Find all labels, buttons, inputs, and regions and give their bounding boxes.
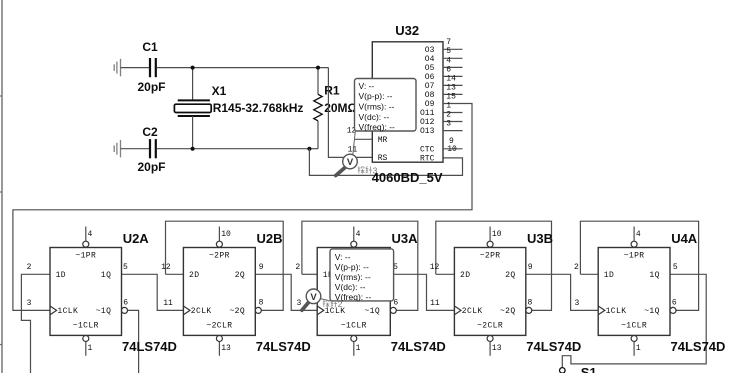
svg-text:V(dc): --: V(dc): -- bbox=[359, 112, 390, 122]
svg-text:RS: RS bbox=[378, 154, 388, 163]
wire U32 O9 to U2A 1CLK bbox=[13, 104, 472, 311]
svg-text:1Q: 1Q bbox=[649, 271, 659, 280]
value 74LS74D (U3A) bbox=[391, 339, 446, 354]
svg-text:U3B: U3B bbox=[527, 231, 553, 246]
value C1 20pF bbox=[138, 80, 166, 94]
U3A pin numbers bbox=[295, 230, 398, 353]
svg-text:~2Q: ~2Q bbox=[229, 307, 245, 316]
svg-text:74LS74D: 74LS74D bbox=[391, 339, 446, 354]
U32 pin 5 O4 bbox=[425, 47, 463, 64]
wire U2B 2Q to U3A 1CLK bbox=[255, 274, 317, 310]
svg-text:~2PR: ~2PR bbox=[480, 252, 501, 261]
svg-text:5: 5 bbox=[446, 47, 451, 56]
svg-text:11: 11 bbox=[430, 299, 440, 308]
svg-text:10: 10 bbox=[221, 230, 231, 239]
svg-text:~1Q: ~1Q bbox=[364, 307, 380, 316]
svg-text:6: 6 bbox=[123, 299, 128, 308]
svg-text:74LS74D: 74LS74D bbox=[671, 339, 726, 354]
svg-text:V(p-p): --: V(p-p): -- bbox=[335, 262, 369, 272]
svg-text:U32: U32 bbox=[395, 23, 419, 38]
svg-text:3: 3 bbox=[27, 299, 32, 308]
svg-text:~1CLR: ~1CLR bbox=[621, 322, 647, 331]
wire U3A ~Q to D feedback bbox=[302, 221, 418, 310]
svg-text:~1Q: ~1Q bbox=[96, 307, 112, 316]
wire C2 to crystal bottom node bbox=[157, 148, 310, 150]
svg-text:20MΩ: 20MΩ bbox=[324, 101, 357, 115]
svg-text:2: 2 bbox=[27, 263, 32, 272]
svg-text:V(p-p): --: V(p-p): -- bbox=[359, 91, 393, 101]
svg-text:2: 2 bbox=[446, 110, 451, 119]
svg-text:1D: 1D bbox=[604, 271, 614, 280]
wire U3B ~Q to D feedback bbox=[436, 221, 552, 310]
IC U32 4060BD_5V body bbox=[372, 42, 443, 162]
U3B pin numbers bbox=[430, 230, 533, 353]
value X1 R145-32.768kHz bbox=[213, 101, 304, 115]
resistor R1 bbox=[309, 68, 322, 149]
flip-flop U4A 74LS74D bbox=[598, 227, 676, 356]
U32 pin 2 O12 bbox=[420, 110, 463, 127]
wire ground to C1 bbox=[121, 67, 150, 69]
svg-text:1Q: 1Q bbox=[101, 271, 111, 280]
U32 pin 7 O3 bbox=[425, 38, 463, 55]
label U2B bbox=[257, 231, 283, 246]
node R1 bottom junction bbox=[307, 147, 311, 151]
svg-text:U2A: U2A bbox=[123, 231, 150, 246]
svg-text:12: 12 bbox=[161, 263, 171, 272]
svg-text:V: V bbox=[310, 292, 317, 303]
svg-text:2: 2 bbox=[574, 263, 579, 272]
U32 pin 13 O8 bbox=[425, 83, 463, 100]
U32 pin 11 RS bbox=[348, 146, 388, 164]
svg-text:9: 9 bbox=[528, 263, 533, 272]
probe label 探针2 bbox=[323, 299, 343, 309]
svg-text:13: 13 bbox=[446, 83, 456, 92]
label R1 bbox=[324, 83, 340, 97]
svg-text:11: 11 bbox=[348, 146, 358, 155]
U32 pin 12 MR bbox=[347, 126, 388, 145]
svg-text:2D: 2D bbox=[189, 271, 199, 280]
svg-text:2CLK: 2CLK bbox=[462, 307, 483, 316]
svg-text:~1CLR: ~1CLR bbox=[73, 322, 99, 331]
U32 pin 1 O11 bbox=[420, 101, 463, 118]
wire U3B 2Q to U4A 1CLK bbox=[526, 274, 598, 310]
svg-text:3: 3 bbox=[574, 299, 579, 308]
probe V (探针3) at U32 RS bbox=[336, 131, 358, 175]
svg-text:6: 6 bbox=[393, 299, 398, 308]
svg-text:U3A: U3A bbox=[392, 231, 419, 246]
svg-text:1: 1 bbox=[356, 344, 361, 353]
svg-text:C2: C2 bbox=[142, 125, 158, 139]
svg-text:3: 3 bbox=[296, 299, 301, 308]
svg-text:O4: O4 bbox=[425, 55, 435, 64]
svg-text:7: 7 bbox=[446, 38, 451, 47]
svg-text:C1: C1 bbox=[142, 40, 158, 54]
svg-text:6: 6 bbox=[672, 299, 677, 308]
svg-text:2CLK: 2CLK bbox=[191, 307, 212, 316]
label U4A bbox=[671, 231, 698, 246]
wire U2A ~1Q feedback (down) bbox=[127, 310, 139, 373]
svg-text:V: --: V: -- bbox=[359, 81, 375, 91]
wire C1 to R1 top / node XT1 bbox=[157, 67, 329, 69]
wire bottom node to U32 RTC pin 10 bbox=[309, 149, 462, 176]
node crystal bottom junction bbox=[191, 147, 195, 151]
value 4060BD_5V bbox=[372, 170, 443, 185]
svg-text:4060BD_5V: 4060BD_5V bbox=[372, 170, 443, 185]
svg-text:10: 10 bbox=[447, 145, 457, 154]
svg-text:RTC: RTC bbox=[420, 154, 435, 163]
wire U4A 1Q to switch S1 bbox=[562, 274, 706, 367]
svg-text:2Q: 2Q bbox=[235, 271, 245, 280]
ground (C1 left) bbox=[114, 59, 120, 77]
flip-flop U2B 74LS74D bbox=[183, 227, 261, 356]
svg-text:1CLK: 1CLK bbox=[57, 307, 78, 316]
svg-text:R1: R1 bbox=[324, 83, 340, 97]
svg-text:V(freq): --: V(freq): -- bbox=[359, 122, 396, 132]
svg-text:4: 4 bbox=[88, 230, 93, 239]
svg-text:8: 8 bbox=[259, 299, 264, 308]
svg-text:10: 10 bbox=[492, 230, 502, 239]
svg-text:V(rms): --: V(rms): -- bbox=[335, 272, 371, 282]
U2B pin numbers bbox=[161, 230, 264, 353]
svg-text:~2Q: ~2Q bbox=[500, 307, 516, 316]
wire U2A 1Q to U2B 2CLK bbox=[122, 274, 184, 310]
wire node to U32 RS pin 11 bbox=[328, 68, 372, 158]
value 74LS74D (U3B) bbox=[526, 339, 581, 354]
label S1 bbox=[581, 365, 597, 373]
svg-text:4: 4 bbox=[636, 230, 641, 239]
svg-text:~1CLR: ~1CLR bbox=[341, 322, 367, 331]
U32 pin 6 O6 bbox=[425, 65, 463, 82]
svg-text:8: 8 bbox=[527, 299, 532, 308]
svg-text:V: V bbox=[347, 157, 354, 168]
label U32 bbox=[395, 23, 419, 38]
flip-flop U3A 74LS74D bbox=[317, 227, 396, 356]
probe V (探针2) at U3A 1CLK bbox=[302, 289, 331, 310]
svg-text:9: 9 bbox=[259, 263, 264, 272]
svg-text:74LS74D: 74LS74D bbox=[526, 339, 581, 354]
value 74LS74D (U2B) bbox=[256, 339, 311, 354]
label U2A bbox=[123, 231, 150, 246]
value R1 20MOhm bbox=[324, 101, 357, 115]
svg-text:74LS74D: 74LS74D bbox=[256, 339, 311, 354]
U32 pin 9 CTC bbox=[420, 137, 463, 154]
wire U3A 1Q to U3B 2CLK bbox=[390, 274, 454, 310]
svg-text:74LS74D: 74LS74D bbox=[122, 339, 177, 354]
svg-text:O5: O5 bbox=[425, 64, 435, 73]
label U3B bbox=[527, 231, 553, 246]
svg-text:X1: X1 bbox=[212, 84, 227, 98]
label X1 bbox=[212, 84, 227, 98]
wire U2A 1D feedback (left) bbox=[21, 274, 50, 373]
svg-text:V(dc): --: V(dc): -- bbox=[335, 282, 366, 292]
svg-text:~1PR: ~1PR bbox=[75, 252, 96, 261]
svg-text:~2PR: ~2PR bbox=[209, 252, 230, 261]
svg-text:1: 1 bbox=[88, 344, 93, 353]
svg-text:12: 12 bbox=[430, 263, 440, 272]
wire U2B ~Q to D feedback bbox=[166, 221, 284, 310]
svg-text:~1PR: ~1PR bbox=[624, 252, 645, 261]
U32 pin 15 O9 bbox=[425, 92, 463, 109]
wire U4A ~Q to D feedback bbox=[580, 221, 698, 310]
svg-text:1CLK: 1CLK bbox=[606, 307, 627, 316]
U32 pin 14 O7 bbox=[425, 74, 463, 91]
svg-text:1D: 1D bbox=[56, 271, 66, 280]
U4A pin numbers bbox=[574, 230, 678, 353]
svg-text:O11: O11 bbox=[420, 109, 435, 118]
svg-text:CTC: CTC bbox=[420, 145, 435, 154]
svg-text:O8: O8 bbox=[425, 91, 435, 100]
label C2 bbox=[142, 125, 158, 139]
svg-text:V: --: V: -- bbox=[335, 252, 351, 262]
svg-text:13: 13 bbox=[492, 344, 502, 353]
svg-text:2Q: 2Q bbox=[505, 271, 515, 280]
svg-text:MR: MR bbox=[378, 136, 388, 145]
svg-text:U4A: U4A bbox=[671, 231, 698, 246]
U2A pin numbers bbox=[27, 230, 129, 353]
value C2 20pF bbox=[138, 160, 166, 174]
svg-text:O7: O7 bbox=[425, 82, 435, 91]
probe label 探针3 bbox=[358, 165, 378, 175]
svg-text:2: 2 bbox=[338, 299, 343, 309]
svg-text:O13: O13 bbox=[420, 127, 435, 136]
svg-text:V(rms): --: V(rms): -- bbox=[359, 102, 395, 112]
svg-text:3: 3 bbox=[446, 120, 451, 129]
svg-text:4: 4 bbox=[446, 56, 451, 65]
ground (C2 left) bbox=[114, 140, 120, 158]
svg-text:5: 5 bbox=[673, 263, 678, 272]
probe tooltip 2 (V readout near U3A) bbox=[330, 249, 394, 302]
svg-text:15: 15 bbox=[446, 92, 456, 101]
svg-text:20pF: 20pF bbox=[138, 160, 166, 174]
value 74LS74D (U2A) bbox=[122, 339, 177, 354]
svg-text:4: 4 bbox=[356, 230, 361, 239]
label C1 bbox=[142, 40, 158, 54]
svg-text:2: 2 bbox=[295, 263, 300, 272]
svg-text:1: 1 bbox=[636, 344, 641, 353]
crystal X1 bbox=[174, 68, 211, 149]
switch S1 terminal bbox=[560, 368, 566, 373]
svg-text:R145-32.768kHz: R145-32.768kHz bbox=[213, 101, 304, 115]
svg-text:6: 6 bbox=[446, 65, 451, 74]
svg-text:~2CLR: ~2CLR bbox=[206, 322, 232, 331]
svg-text:~1Q: ~1Q bbox=[644, 307, 660, 316]
flip-flop U2A 74LS74D bbox=[50, 227, 128, 356]
svg-text:O6: O6 bbox=[425, 73, 435, 82]
svg-text:11: 11 bbox=[163, 299, 173, 308]
sheet border left edge bbox=[0, 0, 2, 373]
svg-text:20pF: 20pF bbox=[138, 80, 166, 94]
svg-text:O3: O3 bbox=[425, 46, 435, 55]
svg-text:2D: 2D bbox=[460, 271, 470, 280]
flip-flop U3B 74LS74D bbox=[454, 227, 531, 356]
svg-text:U2B: U2B bbox=[257, 231, 283, 246]
value 74LS74D (U4A) bbox=[671, 339, 726, 354]
svg-text:S1: S1 bbox=[581, 365, 597, 373]
svg-text:1: 1 bbox=[446, 101, 451, 110]
capacitor C1 bbox=[150, 58, 156, 77]
probe tooltip 1 (V readout near U32) bbox=[355, 79, 417, 133]
U32 pin 3 O13 bbox=[420, 120, 463, 137]
wire ground to C2 bbox=[121, 148, 150, 150]
svg-text:13: 13 bbox=[221, 344, 231, 353]
svg-text:5: 5 bbox=[123, 263, 128, 272]
svg-text:~2CLR: ~2CLR bbox=[477, 322, 503, 331]
U32 pin 4 O5 bbox=[425, 56, 463, 73]
label U3A bbox=[392, 231, 419, 246]
node crystal top junction bbox=[191, 66, 195, 70]
svg-text:14: 14 bbox=[446, 74, 456, 83]
svg-text:3: 3 bbox=[373, 165, 378, 175]
svg-text:O9: O9 bbox=[425, 100, 435, 109]
capacitor C2 bbox=[150, 139, 156, 158]
node R1 top junction bbox=[316, 66, 320, 70]
svg-text:O12: O12 bbox=[420, 118, 435, 127]
U32 pin 10 RTC bbox=[420, 145, 457, 163]
